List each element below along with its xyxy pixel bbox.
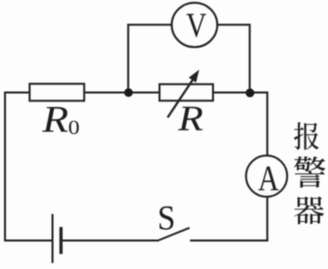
wire voltmeter branch right (217, 25, 250, 93)
wire left vertical (4, 93, 6, 241)
resistor label R0 subscript 0 (69, 121, 79, 134)
wire bottom left segment (4, 240, 53, 242)
switch S blade (157, 228, 190, 241)
node junction dot left (124, 88, 133, 97)
wire top left segment (4, 92, 30, 94)
battery BT1 short plate (59, 227, 62, 254)
wire R to ammeter-branch corner (213, 92, 267, 94)
rheostat R arrow head (190, 71, 199, 82)
ammeter U2 circle (246, 156, 287, 197)
wire voltmeter branch left (128, 25, 172, 93)
wire ammeter branch upper (266, 92, 268, 156)
wire R0 to R (84, 92, 160, 94)
voltmeter U1 circle (172, 3, 218, 47)
rheostat R body (160, 84, 214, 101)
wire bottom right segment (190, 240, 268, 242)
alarm label bao (294, 122, 319, 150)
node junction dot right (246, 89, 255, 98)
alarm label jing (294, 156, 325, 187)
wire ammeter branch lower (266, 197, 268, 241)
resistor R0 (30, 84, 85, 101)
voltmeter label V (186, 14, 206, 37)
battery BT1 long plate (52, 214, 54, 263)
wire bottom battery-to-switch segment (61, 240, 158, 242)
rheostat R arrow shaft (168, 79, 194, 118)
switch label S (160, 206, 174, 229)
resistor label R0 italic R (42, 107, 68, 132)
rheostat label R (178, 107, 203, 130)
ammeter label A (258, 167, 278, 191)
alarm label qi (294, 196, 324, 224)
